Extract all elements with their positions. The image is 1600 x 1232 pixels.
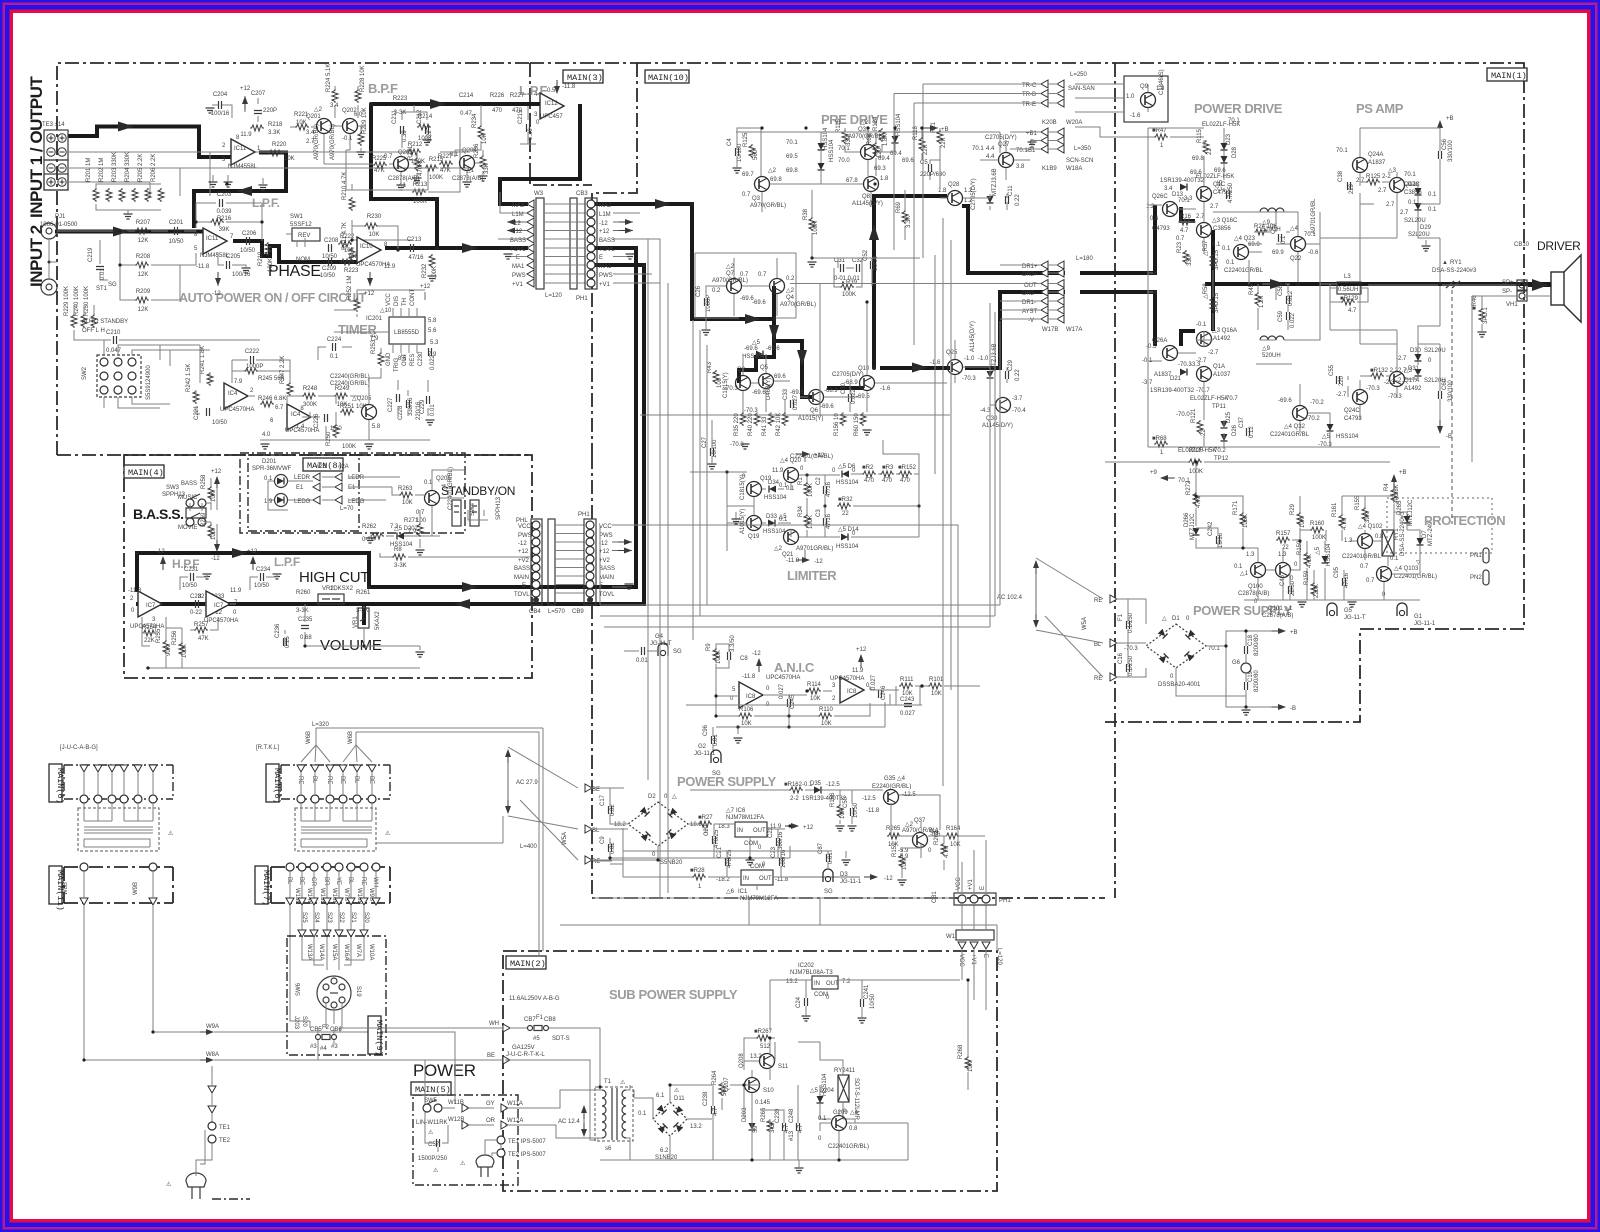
dash-dot frame right transformer [281, 765, 390, 799]
svg-text:D28: D28 [1232, 146, 1238, 158]
resistor R214 100K [417, 124, 431, 130]
svg-text:R264: R264 [712, 1070, 718, 1085]
svg-text:BE: BE [298, 877, 304, 885]
svg-text:1066-01-0500: 1066-01-0500 [40, 222, 78, 228]
svg-text:0.022: 0.022 [1290, 312, 1296, 328]
svg-text:0.7: 0.7 [740, 272, 749, 278]
svg-text:0.6: 0.6 [1150, 216, 1159, 222]
svg-text:11.6AL250V A-B-G: 11.6AL250V A-B-G [509, 996, 560, 1002]
dash-dot box MAIN4 [124, 455, 532, 678]
svg-text:WH: WH [372, 877, 378, 887]
svg-text:4.7: 4.7 [1348, 308, 1357, 314]
svg-text:C22401(GR/BL): C22401(GR/BL) [1394, 574, 1437, 580]
resistor R24 [1254, 229, 1268, 235]
transistor Q10 [860, 376, 875, 391]
svg-text:s6: s6 [605, 1146, 612, 1152]
svg-text:4.4: 4.4 [986, 146, 995, 152]
transistor Q8 [864, 177, 879, 192]
cap C52 [871, 261, 874, 269]
svg-text:+B: +B [1290, 630, 1298, 636]
svg-text:REV: REV [298, 233, 310, 239]
resistor R252 [354, 298, 360, 312]
svg-text:100K: 100K [808, 515, 814, 529]
svg-text:S2L20U: S2L20U [1404, 218, 1426, 224]
+9 arrow left [1162, 477, 1175, 479]
svg-text:Q28: Q28 [948, 182, 960, 188]
svg-text:10/50: 10/50 [870, 993, 876, 1009]
cap C95 [1343, 578, 1346, 586]
transistor Q204 [460, 156, 475, 171]
svg-text:10/50: 10/50 [322, 254, 338, 260]
svg-text:IC8: IC8 [746, 694, 756, 700]
svg-text:47K: 47K [374, 168, 385, 174]
svg-text:0.7: 0.7 [758, 272, 767, 278]
svg-text:HSS104: HSS104 [763, 529, 786, 535]
label box MAIN(8) [303, 458, 343, 471]
resistor R253 [378, 352, 384, 366]
-12 arrow up [758, 660, 760, 672]
svg-text:-11.8: -11.8 [196, 264, 210, 270]
label box MAIN(5) [411, 1082, 451, 1095]
svg-text:22: 22 [842, 511, 849, 517]
svg-text:520UH: 520UH [1262, 353, 1281, 359]
svg-text:#3: #3 [310, 1044, 317, 1050]
resistor R8 [392, 554, 406, 560]
resistor R248 [302, 393, 316, 399]
svg-text:R111: R111 [900, 677, 914, 683]
svg-text:0.1: 0.1 [1390, 556, 1399, 562]
cap C245 [788, 699, 791, 707]
transistor Q16C [1197, 223, 1212, 238]
dash-dot box MAIN3 LPF section [530, 63, 637, 455]
svg-text:⚠: ⚠ [674, 1087, 680, 1094]
svg-text:C222: C222 [245, 349, 260, 355]
svg-text:-70.0: -70.0 [1176, 412, 1190, 418]
caps C21 C23 [726, 858, 729, 866]
dash-dot protection dotted box [1387, 498, 1492, 553]
cap C56 [1439, 151, 1442, 159]
svg-text:1.4: 1.4 [296, 424, 305, 430]
svg-text:BE: BE [339, 776, 345, 784]
svg-text:470/25: 470/25 [727, 849, 733, 868]
svg-text:220P: 220P [263, 108, 277, 114]
cap C27 [711, 448, 714, 456]
cap C243 [904, 704, 912, 707]
svg-text:10K: 10K [902, 859, 908, 870]
svg-text:E2240(GR/BL): E2240(GR/BL) [872, 784, 911, 790]
svg-text:C16: C16 [1118, 652, 1124, 664]
cap C209 [329, 258, 332, 266]
svg-text:R29: R29 [1290, 503, 1296, 515]
svg-text:MA1: MA1 [599, 264, 612, 270]
jack G6 [1241, 663, 1251, 673]
svg-text:0.027: 0.027 [900, 711, 916, 717]
svg-text:Q3: Q3 [752, 196, 761, 202]
svg-text:TOVL: TOVL [599, 247, 615, 253]
svg-text:Q25: Q25 [946, 350, 958, 356]
svg-text:R209: R209 [136, 289, 151, 295]
resistor R259 [208, 524, 214, 538]
svg-text:0.39: 0.39 [402, 130, 408, 142]
svg-text:A1492: A1492 [1404, 386, 1422, 392]
svg-text:R35 220: R35 220 [734, 413, 740, 436]
cap C211 [401, 126, 404, 134]
relay RY2411 [838, 1075, 849, 1102]
transistor Q7 [727, 279, 742, 294]
svg-text:70.1: 70.1 [1178, 198, 1190, 204]
svg-text:E: E [599, 255, 603, 261]
wire thick BPF vertical and to MA2 [371, 104, 437, 248]
cap C38 [1348, 182, 1351, 190]
svg-text:C2: C2 [816, 477, 822, 485]
label box MAIN(2) [506, 956, 546, 969]
svg-text:UPC4570HA: UPC4570HA [766, 675, 800, 681]
bridge D1 [1146, 624, 1206, 668]
svg-text:△4 Q32: △4 Q32 [1284, 424, 1306, 430]
svg-text:-70.4: -70.4 [1012, 408, 1026, 414]
cap C206 [247, 237, 250, 245]
svg-text:△2: △2 [786, 288, 795, 294]
svg-text:MAIN: MAIN [514, 575, 529, 581]
svg-text:K20B: K20B [1042, 120, 1057, 126]
+B -B arrows [1270, 630, 1284, 632]
resistor R114 [807, 688, 821, 694]
transistor QA30 [996, 398, 1011, 413]
resistor R227b [439, 161, 453, 167]
svg-text:△: △ [1162, 616, 1167, 622]
svg-text:△3 Q16A: △3 Q16A [1212, 328, 1237, 334]
svg-text:1DKSX2: 1DKSX2 [330, 586, 354, 592]
zener D265 [1404, 516, 1411, 523]
svg-text:L.P.F: L.P.F [274, 555, 300, 569]
svg-text:C9: C9 [600, 836, 606, 844]
svg-text:R224 5.1K: R224 5.1K [326, 64, 332, 92]
svg-text:W8B: W8B [63, 882, 69, 895]
svg-text:NJM4558L: NJM4558L [228, 164, 258, 170]
svg-text:GY: GY [486, 1101, 495, 1107]
caps C232 C233 [196, 600, 199, 608]
svg-text:MAIN(2): MAIN(2) [510, 959, 546, 969]
jack G2 [712, 744, 714, 750]
svg-text:C95: C95 [1334, 566, 1340, 578]
svg-text:R258: R258 [201, 474, 207, 489]
emitter resistors R57 R58 [1210, 254, 1216, 268]
+12 arrow [805, 454, 808, 462]
cap C60 [1439, 391, 1442, 399]
resistor R247 [287, 382, 293, 396]
svg-text:HSS104: HSS104 [822, 1073, 828, 1096]
svg-text:W7A: W7A [355, 944, 361, 957]
cap C46 [1289, 586, 1292, 594]
resistors R2 R3 R152 [862, 471, 876, 477]
svg-text:WH: WH [489, 1021, 499, 1027]
resistor R257 [194, 627, 208, 633]
svg-text:69.8: 69.8 [770, 177, 782, 183]
resistor R207 [135, 228, 149, 234]
cap C57 [437, 1139, 440, 1147]
cap C226 [325, 414, 328, 422]
svg-text:+12: +12 [364, 291, 375, 297]
resistor R224 [332, 89, 338, 103]
svg-text:OFF L H: OFF L H [82, 328, 105, 334]
svg-text:■R27: ■R27 [698, 815, 713, 821]
svg-text:300K: 300K [303, 402, 317, 408]
svg-text:R115: R115 [1197, 128, 1203, 143]
svg-text:△5: △5 [1315, 546, 1321, 555]
wire q3 to q8 [762, 184, 871, 212]
svg-text:R23: R23 [1177, 241, 1183, 253]
svg-text:R160: R160 [1310, 521, 1325, 527]
svg-text:R16: R16 [1180, 214, 1192, 220]
svg-text:△2: △2 [768, 168, 777, 174]
-B arrow down [1439, 420, 1441, 432]
svg-text:-12: -12 [212, 291, 221, 297]
caps C2 C3 [824, 486, 827, 494]
resistor R258 [208, 486, 214, 500]
IC6 regulator [735, 822, 767, 837]
resistor R47 [1154, 134, 1168, 140]
svg-text:SW1: SW1 [290, 214, 304, 220]
resistor R249 [334, 393, 348, 399]
svg-text:C212: C212 [417, 109, 423, 124]
svg-text:E: E [980, 886, 986, 890]
svg-text:1500P/250: 1500P/250 [418, 1156, 448, 1162]
svg-text:3PD:15: 3PD:15 [1214, 292, 1220, 313]
svg-text:69.9: 69.9 [1272, 250, 1284, 256]
svg-text:W5A: W5A [562, 832, 568, 845]
wires top pre-drive [736, 128, 1000, 176]
svg-text:100/16: 100/16 [232, 272, 251, 278]
svg-text:C52: C52 [863, 249, 869, 261]
RCA jack PJ2 [41, 279, 57, 295]
svg-text:BR: BR [323, 877, 329, 886]
svg-text:C26: C26 [696, 285, 702, 297]
svg-text:100K: 100K [808, 483, 814, 497]
svg-text:MTZJ12C: MTZJ12C [1408, 499, 1414, 526]
svg-text:10/100: 10/100 [712, 439, 718, 458]
svg-text:11.9: 11.9 [772, 468, 784, 474]
svg-text:GND: GND [386, 352, 392, 366]
svg-text:R242 1.5K: R242 1.5K [186, 364, 192, 392]
svg-text:■R3: ■R3 [882, 465, 894, 471]
svg-text:BASS: BASS [181, 481, 197, 487]
svg-text:R201 1M: R201 1M [86, 158, 92, 182]
svg-text:VCC: VCC [599, 524, 612, 530]
svg-text:-12: -12 [752, 651, 761, 657]
svg-text:0.8: 0.8 [1375, 534, 1384, 540]
svg-text:R254: R254 [142, 625, 157, 631]
+12 arrow up [860, 656, 862, 668]
svg-text:DIS: DIS [394, 296, 400, 306]
lower mirror: transistor Q16A [1197, 332, 1212, 347]
svg-text:C234: C234 [256, 567, 271, 573]
protection wires [1196, 462, 1420, 600]
label box MAIN(11) left [49, 866, 62, 904]
svg-text:0.1: 0.1 [818, 1116, 827, 1122]
main4 wires [142, 604, 420, 668]
svg-text:3PD.1: 3PD.1 [1483, 307, 1489, 324]
wires SW2 to circuit [104, 340, 210, 408]
svg-text:-12.5: -12.5 [862, 796, 876, 802]
svg-text:C1815(Y): C1815(Y) [740, 474, 746, 500]
svg-text:0.1: 0.1 [1234, 564, 1243, 570]
svg-text:GR: GR [310, 877, 316, 887]
svg-text:D203: D203 [742, 1107, 748, 1122]
plug left [186, 1173, 206, 1187]
svg-text:MAIN(3): MAIN(3) [567, 73, 603, 83]
svg-text:67.8: 67.8 [846, 178, 858, 184]
svg-text:-69.6: -69.6 [1278, 398, 1292, 404]
diodes D5 D6 [818, 143, 825, 150]
svg-text:120: 120 [877, 147, 883, 158]
svg-text:RE: RE [297, 776, 303, 784]
resistor R43 [713, 370, 719, 384]
resistor R241 1.8K [207, 372, 213, 386]
connector TE3 [44, 130, 68, 160]
caps C215 C216 [527, 124, 530, 132]
svg-text:Q26C: Q26C [1152, 194, 1168, 200]
svg-text:C17: C17 [600, 794, 606, 806]
transistor Q20 [784, 468, 799, 483]
svg-text:220: 220 [1339, 375, 1345, 386]
wire thick input2 [55, 230, 203, 234]
svg-text:■R28: ■R28 [690, 868, 705, 874]
cap C212 [426, 126, 429, 134]
svg-text:G6: G6 [1232, 660, 1241, 666]
svg-text:#5: #5 [533, 1036, 540, 1042]
svg-text:C29: C29 [1008, 359, 1014, 371]
svg-text:D3: D3 [840, 872, 848, 878]
svg-text:C219: C219 [88, 247, 94, 262]
svg-text:0.2: 0.2 [712, 288, 721, 294]
label box MAIN(7) [255, 866, 268, 904]
svg-text:10/50: 10/50 [212, 420, 228, 426]
svg-text:R6B: R6B [867, 133, 873, 145]
svg-text:#2A: #2A [338, 464, 349, 470]
svg-text:#13: #13 [789, 1130, 795, 1141]
svg-text:JG-11-1: JG-11-1 [1414, 621, 1436, 627]
svg-text:▲: ▲ [1442, 260, 1448, 266]
svg-text:TR-B: TR-B [1022, 92, 1036, 98]
svg-text:A1492: A1492 [1213, 336, 1231, 342]
svg-text:1SR139-400T32: 1SR139-400T32 [1150, 388, 1195, 394]
svg-text:MAIN(4): MAIN(4) [128, 468, 164, 478]
svg-text:-11.8: -11.8 [775, 877, 789, 883]
svg-text:69.3: 69.3 [874, 166, 886, 172]
svg-text:A9701GR/BL: A9701GR/BL [1311, 198, 1317, 234]
svg-text:4.0: 4.0 [262, 432, 271, 438]
svg-text:POWER DRIVE: POWER DRIVE [1194, 101, 1283, 116]
svg-text:C201: C201 [169, 220, 184, 226]
transistor Q203 [394, 157, 409, 172]
svg-text:-68.9: -68.9 [824, 388, 838, 394]
svg-text:R250: R250 [326, 431, 332, 446]
transistor Q35 [884, 790, 899, 805]
svg-text:Q7: Q7 [726, 271, 735, 277]
svg-text:E: E [516, 255, 520, 261]
svg-text:10K: 10K [284, 156, 295, 162]
svg-text:IC7: IC7 [146, 603, 156, 609]
svg-text:-69.6: -69.6 [820, 404, 834, 410]
svg-text:3.3/50: 3.3/50 [730, 635, 736, 652]
resistor R220 [268, 150, 282, 156]
svg-text:300/16: 300/16 [778, 831, 784, 850]
wire thick DR2+ into power drive [1080, 205, 1213, 284]
svg-text:SDT-S: SDT-S [552, 1036, 570, 1042]
svg-text:R256: R256 [172, 630, 178, 645]
W5A pins right block [1110, 595, 1117, 603]
svg-text:R42 10K: R42 10K [776, 413, 782, 436]
resistor R150 [1304, 552, 1310, 566]
resistor R118 [919, 137, 925, 151]
svg-text:470K: 470K [1307, 554, 1313, 568]
svg-text:IC11: IC11 [234, 146, 247, 152]
svg-text:HSS104: HSS104 [764, 495, 787, 501]
svg-text:-12: -12 [518, 541, 527, 547]
svg-text:MA2: MA2 [599, 203, 612, 209]
resistor R157 [1276, 537, 1290, 543]
resistor R124 [879, 128, 885, 142]
svg-text:D2: D2 [648, 794, 656, 800]
resistor R246 [260, 401, 274, 407]
cap C208 [329, 244, 332, 252]
svg-text:△3 Q16C: △3 Q16C [1212, 218, 1238, 224]
svg-text:+V1: +V1 [968, 878, 974, 890]
svg-text:0.56UH: 0.56UH [1338, 287, 1358, 293]
svg-text:1.8: 1.8 [938, 188, 947, 194]
svg-text:⚠: ⚠ [168, 830, 174, 837]
svg-text:POWER SUPPLY: POWER SUPPLY [677, 774, 776, 789]
svg-text:C204: C204 [213, 92, 228, 98]
svg-text:10K: 10K [810, 696, 821, 702]
svg-text:W16A: W16A [343, 944, 349, 960]
wire thick MA1 CB3 to main4 volume [136, 265, 644, 625]
svg-text:SCN-SCN: SCN-SCN [1066, 158, 1093, 164]
wires bpf input [290, 86, 366, 164]
svg-text:TE2 IPS-5007: TE2 IPS-5007 [508, 1152, 546, 1158]
svg-text:⚠: ⚠ [460, 1160, 466, 1167]
AC 27.9 measure arrow [507, 753, 509, 810]
svg-text:5.6: 5.6 [428, 328, 437, 334]
svg-text:10K: 10K [968, 1061, 974, 1072]
svg-text:R21: R21 [931, 121, 937, 133]
svg-text:0.022: 0.022 [1288, 290, 1294, 306]
svg-text:VCC: VCC [518, 524, 531, 530]
connector PH1 housing [584, 519, 596, 605]
bottom PS transistors Q32 [1293, 406, 1308, 421]
svg-text:-69.6: -69.6 [766, 346, 780, 352]
diode D204 [817, 1096, 824, 1103]
svg-text:R265: R265 [886, 826, 901, 832]
svg-text:VCC: VCC [956, 877, 962, 890]
cap C242b [1217, 536, 1220, 544]
svg-text:-1.6: -1.6 [930, 360, 941, 366]
svg-text:△1: △1 [1240, 571, 1249, 577]
svg-text:-70.3: -70.3 [744, 408, 758, 414]
transistor Q1A [1197, 367, 1212, 382]
svg-text:2.7: 2.7 [1356, 178, 1365, 184]
connector W3 pins [527, 200, 534, 208]
svg-text:△: △ [672, 794, 677, 800]
svg-text:RE: RE [1094, 598, 1102, 604]
svg-text:W16B: W16B [331, 888, 337, 904]
svg-text:69.6: 69.6 [902, 158, 914, 164]
svg-text:NJM79M12FA: NJM79M12FA [740, 896, 778, 902]
svg-text:-70.2: -70.2 [1212, 448, 1226, 454]
svg-text:7.9: 7.9 [234, 379, 243, 385]
svg-text:69.9: 69.9 [1248, 242, 1260, 248]
svg-text:C231: C231 [184, 567, 199, 573]
